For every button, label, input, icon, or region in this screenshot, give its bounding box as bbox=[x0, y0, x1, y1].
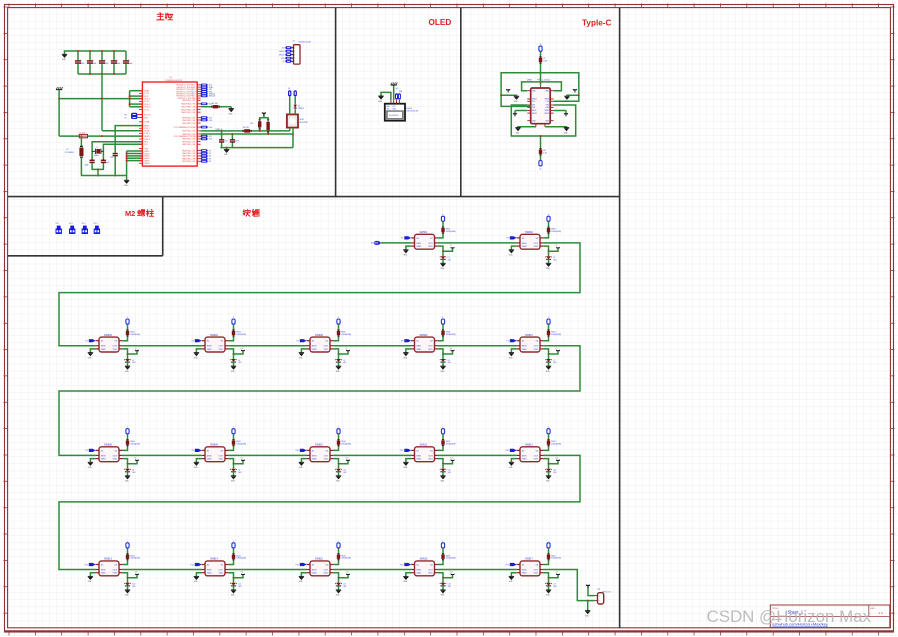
junction dot bbox=[338, 463, 340, 465]
junction dot bbox=[442, 250, 444, 252]
junction dot bbox=[442, 463, 444, 465]
key button K11 bbox=[451, 459, 454, 461]
svg-text:GND: GND bbox=[416, 459, 421, 461]
resistor R609 10K bbox=[233, 439, 235, 446]
svg-text:OUT: OUT bbox=[428, 569, 433, 571]
ground under LED bbox=[440, 262, 445, 264]
wire: bus link row2-row3 bbox=[59, 346, 580, 456]
wire: branch to key button bbox=[339, 461, 349, 464]
wire: bus link row1-row2 bbox=[59, 243, 580, 346]
wire+ground bottom-right pin bbox=[545, 126, 567, 129]
svg-text:P16: P16 bbox=[400, 564, 403, 566]
MCU U1 STM32F103C8T6 bbox=[142, 82, 197, 166]
svg-text:VSS_3: VSS_3 bbox=[144, 139, 150, 141]
wire: resistor to net port bbox=[233, 434, 235, 439]
input flag of SW1 bbox=[404, 236, 411, 239]
buzzer BUZ1 bbox=[287, 114, 298, 127]
svg-text:P17: P17 bbox=[506, 564, 509, 566]
svg-text:K14: K14 bbox=[241, 572, 244, 574]
wire: OSC_IN to MCU bbox=[92, 142, 142, 160]
wire: branch to key button bbox=[128, 351, 138, 354]
svg-text:P4: P4 bbox=[192, 341, 194, 343]
wire: resistor to net port bbox=[548, 434, 550, 439]
wire: branch to key button bbox=[339, 351, 349, 354]
Type-C top pin bbox=[540, 85, 542, 88]
wire: resistor to net port bbox=[127, 434, 129, 439]
wire: branch to LED bbox=[233, 464, 235, 469]
svg-text:VDD: VDD bbox=[324, 459, 329, 461]
wire: resistor to net port bbox=[548, 548, 550, 553]
switch SW5 body bbox=[310, 337, 330, 352]
wire: branch to LED bbox=[442, 354, 444, 359]
wire: LED to ground bbox=[338, 472, 340, 476]
ground under LED bbox=[440, 365, 445, 367]
svg-text:SW602: SW602 bbox=[525, 231, 534, 234]
ground under LED bbox=[336, 589, 341, 591]
svg-text:SWDIO: SWDIO bbox=[279, 51, 285, 53]
svg-text:SW610: SW610 bbox=[315, 444, 324, 447]
ground under LED bbox=[125, 475, 130, 477]
LED L14 bbox=[231, 583, 236, 586]
LED L4 bbox=[231, 359, 236, 362]
svg-text:K15: K15 bbox=[346, 572, 349, 574]
switch SW11 body bbox=[415, 447, 435, 462]
svg-text:SCL: SCL bbox=[396, 88, 399, 90]
switch SW3 body bbox=[99, 337, 119, 352]
key button K16 bbox=[451, 574, 454, 576]
net port flag (tall) left bbox=[288, 90, 291, 96]
svg-text:VDD: VDD bbox=[324, 349, 329, 351]
svg-text:M2-4: M2-4 bbox=[94, 223, 98, 225]
wire: SW7 bottom-left to ground bbox=[511, 349, 516, 353]
junction dot bbox=[442, 577, 444, 579]
resistor R608 10K bbox=[127, 439, 129, 446]
wire: branch to LED bbox=[442, 578, 444, 583]
wire: SW1 bottom-right branch bbox=[438, 246, 443, 251]
wire: SW16 bottom-right branch bbox=[438, 573, 443, 578]
wire: branch to key button bbox=[234, 351, 244, 354]
svg-text:SW611: SW611 bbox=[420, 444, 428, 447]
resistor R611 10K bbox=[442, 439, 444, 446]
svg-text:SW601: SW601 bbox=[420, 231, 429, 234]
svg-text:K9: K9 bbox=[241, 458, 243, 460]
svg-text:P1: P1 bbox=[401, 238, 403, 240]
svg-text:OUT: OUT bbox=[534, 346, 539, 348]
ground under LED bbox=[440, 475, 445, 477]
svg-text:PA7/TIM2_CH1: PA7/TIM2_CH1 bbox=[182, 160, 195, 163]
T symbol upper-right bbox=[573, 89, 577, 91]
ground left of SW4 bbox=[194, 352, 199, 354]
wire: SW8 bottom-right branch bbox=[122, 459, 127, 464]
wire: SW17 bottom-right branch bbox=[543, 573, 548, 578]
LED L13 bbox=[125, 583, 130, 586]
wire: resistor to net port bbox=[338, 434, 340, 439]
svg-text:1N5819: 1N5819 bbox=[298, 108, 304, 110]
svg-text:PB2: PB2 bbox=[144, 117, 148, 119]
wire: SW16 top-right to resistor bbox=[438, 560, 443, 564]
diode D1 bbox=[294, 110, 296, 115]
svg-text:P13: P13 bbox=[85, 564, 88, 566]
svg-text:1: 1 bbox=[233, 317, 234, 319]
input flag of SW12 bbox=[510, 449, 517, 452]
wire: SW1 bottom-left to ground bbox=[406, 246, 411, 250]
wire: LED to ground bbox=[233, 586, 235, 590]
wire: VDD tie bus bbox=[129, 91, 131, 107]
LED L7 bbox=[546, 359, 551, 362]
switch SW1 body bbox=[415, 234, 435, 249]
wire: SW2 top-right to resistor bbox=[543, 234, 548, 238]
wire: LED to ground bbox=[233, 362, 235, 366]
svg-text:P12: P12 bbox=[506, 450, 509, 452]
wire: branch to LED bbox=[338, 354, 340, 359]
ground left of SW10 bbox=[299, 461, 304, 463]
junction dots on cap rails bbox=[77, 50, 79, 52]
svg-text:CC1: CC1 bbox=[532, 101, 535, 103]
svg-text:2: 2 bbox=[599, 601, 600, 603]
switch SW10 body bbox=[310, 447, 330, 462]
wire: SW16 bottom-left to ground bbox=[406, 573, 411, 577]
svg-text:1: 1 bbox=[233, 427, 234, 429]
svg-text:SW608: SW608 bbox=[104, 444, 113, 447]
svg-text:100nF: 100nF bbox=[234, 141, 239, 143]
wire: SW11 bottom-left to ground bbox=[406, 459, 411, 463]
key button K14 bbox=[241, 574, 244, 576]
section divider: vertical line between OLED and Type-C bbox=[460, 8, 462, 197]
wire: bus row1 start bbox=[380, 242, 411, 244]
svg-text:GND: GND bbox=[522, 349, 527, 351]
resistor R4 1.5K pull-up bbox=[259, 120, 261, 130]
switch SW14 body bbox=[205, 561, 225, 576]
svg-text:20pF: 20pF bbox=[106, 162, 110, 164]
net port 5V (top) bbox=[539, 46, 542, 51]
resistor R7 on VBUS bbox=[540, 56, 542, 63]
svg-text:SCL: SCL bbox=[387, 108, 390, 110]
wire: branch to LED bbox=[548, 354, 550, 359]
net port above SW15 bbox=[337, 543, 340, 548]
capacitor C9 bbox=[231, 133, 233, 135]
svg-text:BUZ1: BUZ1 bbox=[300, 119, 305, 121]
svg-text:K6: K6 bbox=[450, 348, 452, 350]
wire: branch to key button bbox=[549, 575, 559, 578]
resistor R615 10K bbox=[338, 553, 340, 560]
svg-text:R1: R1 bbox=[209, 150, 211, 152]
svg-text:R5: R5 bbox=[209, 161, 211, 163]
svg-text:TP1: TP1 bbox=[597, 589, 600, 591]
svg-text:32.768KHZ: 32.768KHZ bbox=[65, 152, 75, 154]
wire: SW9 bottom-left to ground bbox=[196, 459, 201, 463]
net port above SW1 bbox=[441, 216, 444, 221]
svg-text:1: 1 bbox=[548, 541, 549, 543]
svg-text:Y1: Y1 bbox=[96, 147, 98, 149]
svg-text:10KΩ(1608): 10KΩ(1608) bbox=[551, 231, 561, 233]
svg-text:CC2: CC2 bbox=[546, 101, 549, 103]
svg-text:PA5/TIM2_CH1: PA5/TIM2_CH1 bbox=[182, 155, 195, 158]
switch SW6 body bbox=[415, 337, 435, 352]
svg-text:K17: K17 bbox=[556, 572, 559, 574]
wire: NRST row to MCU bbox=[88, 135, 143, 137]
wire: OLED GND pin bbox=[381, 92, 391, 100]
net port above SW10 bbox=[337, 429, 340, 434]
ground left of SW5 bbox=[299, 352, 304, 354]
wire: LED to ground bbox=[442, 472, 444, 476]
ground left of SW3 bbox=[88, 352, 93, 354]
svg-text:SW617: SW617 bbox=[525, 558, 534, 561]
wire: caps bottom rail bbox=[220, 147, 293, 149]
wire: LED to ground bbox=[442, 259, 444, 263]
svg-text:VBAT: VBAT bbox=[144, 90, 150, 93]
svg-text:K2: K2 bbox=[556, 245, 558, 247]
wire: LED to ground bbox=[338, 586, 340, 590]
key button K13 bbox=[135, 574, 138, 576]
svg-text:B1: B1 bbox=[125, 117, 127, 119]
ground under LED bbox=[546, 589, 551, 591]
crystal Y2 32.768KHz bbox=[80, 136, 82, 146]
net port above SW6 bbox=[441, 319, 444, 324]
svg-text:PB7/TIM2_CH1: PB7/TIM2_CH1 bbox=[182, 131, 195, 133]
wire: OSC_OUT to MCU bbox=[103, 144, 142, 159]
svg-text:SW616: SW616 bbox=[420, 558, 429, 561]
svg-text:M2-1: M2-1 bbox=[56, 223, 60, 225]
wire: SW6 bottom-right branch bbox=[438, 349, 443, 354]
OLED pins bbox=[390, 100, 392, 104]
svg-text:10KΩ(1608): 10KΩ(1608) bbox=[236, 334, 246, 336]
wire: SW15 bottom-right branch bbox=[333, 573, 338, 578]
ground left of SW14 bbox=[194, 575, 199, 577]
ground left of SW1 bbox=[403, 249, 408, 251]
ground left of SW17 bbox=[509, 575, 514, 577]
T symbol mid-left with stub bbox=[515, 110, 527, 112]
svg-text:SEN: SEN bbox=[416, 455, 421, 457]
LED L11 bbox=[441, 469, 446, 472]
start oval connector KEY chain bbox=[374, 241, 381, 245]
ground left of SW11 bbox=[403, 461, 408, 463]
svg-text:VDD: VDD bbox=[324, 573, 329, 575]
svg-text:MLT-8530: MLT-8530 bbox=[300, 122, 308, 124]
svg-text:OUT: OUT bbox=[219, 455, 224, 457]
svg-text:PA0/TIM2_CH1: PA0/TIM2_CH1 bbox=[182, 138, 195, 141]
wire: LED to ground bbox=[548, 586, 550, 590]
T symbol above pull-ups bbox=[262, 112, 266, 114]
capacitor C7 20pF bbox=[101, 159, 106, 161]
svg-text:SW604: SW604 bbox=[210, 334, 219, 337]
wire: NRST row horizontal bbox=[59, 135, 79, 137]
wire+ground upper-left bbox=[501, 95, 516, 96]
input flag of SW10 bbox=[300, 449, 307, 452]
svg-text:10KΩ(1608): 10KΩ(1608) bbox=[236, 558, 246, 560]
svg-text:SW614: SW614 bbox=[210, 558, 219, 561]
svg-text:OUT: OUT bbox=[428, 455, 433, 457]
svg-text:SEN: SEN bbox=[522, 455, 527, 457]
input flag of SW11 bbox=[404, 449, 411, 452]
wire: branch to key button bbox=[549, 249, 559, 252]
wire: TP1 pin1 up to T bbox=[588, 586, 595, 595]
junction dot bbox=[548, 463, 550, 465]
svg-text:K18: K18 bbox=[209, 139, 212, 141]
svg-text:GND5: GND5 bbox=[144, 160, 149, 162]
ground under MCU bbox=[126, 176, 128, 181]
wire: SW13 top-right to resistor bbox=[122, 560, 127, 564]
wire: branch to key button bbox=[443, 461, 453, 464]
ground under LED bbox=[125, 365, 130, 367]
svg-text:REV:: REV: bbox=[870, 608, 875, 610]
wire: resistor to net port bbox=[442, 434, 444, 439]
wire: SW7 bottom-right branch bbox=[543, 349, 548, 354]
svg-text:1: 1 bbox=[338, 427, 339, 429]
resistor R612 10K bbox=[548, 439, 550, 446]
resistor R603 10K bbox=[127, 330, 129, 337]
wire: OLED VCC pin bbox=[393, 85, 395, 100]
svg-text:1: 1 bbox=[233, 541, 234, 543]
resistor R607 10K bbox=[548, 330, 550, 337]
wire: branch to key button bbox=[128, 461, 138, 464]
ground right of R3 bbox=[229, 108, 234, 110]
svg-text:VDD: VDD bbox=[534, 459, 539, 461]
svg-text:NRST: NRST bbox=[144, 125, 150, 127]
capacitor C5 100nF bbox=[113, 153, 118, 155]
wire: SW12 top-right to resistor bbox=[543, 446, 548, 450]
wire: branch to key button bbox=[128, 575, 138, 578]
svg-text:10KΩ(1608): 10KΩ(1608) bbox=[446, 334, 456, 336]
input flag of SW7 bbox=[510, 339, 517, 342]
key button K1 bbox=[451, 247, 454, 249]
ground under LED bbox=[231, 475, 236, 477]
capacitor C5 100nF bbox=[125, 51, 127, 60]
svg-text:PA9/TIM2_CH1: PA9/TIM2_CH1 bbox=[182, 99, 195, 102]
svg-text:GND: GND bbox=[312, 459, 317, 461]
svg-text:GND: GND bbox=[101, 349, 106, 351]
wire: SW10 top-right to resistor bbox=[333, 446, 338, 450]
ground left of SW13 bbox=[88, 575, 93, 577]
ground under LED bbox=[336, 475, 341, 477]
wire: power bar stem bbox=[58, 90, 60, 99]
svg-text:1: 1 bbox=[338, 317, 339, 319]
resistor R8 5.1K bottom bbox=[540, 148, 542, 155]
svg-text:VSS_2: VSS_2 bbox=[144, 133, 150, 135]
capacitor C4 100nF bbox=[113, 51, 115, 60]
svg-text:P6: P6 bbox=[401, 341, 403, 343]
switch SW12 body bbox=[520, 447, 540, 462]
svg-text:K16: K16 bbox=[209, 120, 212, 122]
svg-text:10KΩ(1608): 10KΩ(1608) bbox=[446, 558, 456, 560]
LED L1 bbox=[441, 256, 446, 259]
wire: buzzer bottom-left to D- line bbox=[289, 128, 291, 131]
wire: USB D- line bbox=[201, 130, 243, 132]
input flag of SW13 bbox=[89, 563, 96, 566]
svg-text:PA11/TIM2_CH1: PA11/TIM2_CH1 bbox=[181, 106, 195, 109]
svg-text:K16: K16 bbox=[450, 572, 453, 574]
net port above SW7 bbox=[547, 319, 550, 324]
svg-text:B0: B0 bbox=[125, 114, 127, 116]
svg-text:P8: P8 bbox=[86, 450, 88, 452]
svg-text:SWCLK: SWCLK bbox=[209, 96, 216, 98]
section divider: horizontal line below top sections bbox=[8, 196, 620, 198]
wire: bus row3 inter-unit bbox=[122, 454, 201, 456]
svg-text:100nF: 100nF bbox=[128, 63, 133, 65]
svg-text:PA1/TIM2_CH1: PA1/TIM2_CH1 bbox=[182, 140, 195, 143]
key button K6 bbox=[451, 350, 454, 352]
junction dot bbox=[548, 577, 550, 579]
ground left of SW15 bbox=[299, 575, 304, 577]
svg-text:OUT: OUT bbox=[428, 346, 433, 348]
LED L12 bbox=[546, 469, 551, 472]
svg-text:VDD: VDD bbox=[219, 573, 224, 575]
wire: branch to LED bbox=[233, 354, 235, 359]
Type-C bottom pins bbox=[535, 124, 537, 127]
svg-text:1.0: 1.0 bbox=[879, 611, 884, 615]
wire: resistor to net port bbox=[233, 324, 235, 329]
svg-text:PC13-TAMPER-RTC/PB9: PC13-TAMPER-RTC/PB9 bbox=[174, 135, 196, 138]
wire: SW10 bottom-left to ground bbox=[301, 459, 306, 463]
svg-text:M2: M2 bbox=[125, 209, 135, 218]
wire: resistor to net port bbox=[127, 548, 129, 553]
wire: resistor to port bbox=[540, 155, 542, 160]
wire: LED to ground bbox=[127, 472, 129, 476]
svg-text:10KΩ(1608): 10KΩ(1608) bbox=[551, 444, 561, 446]
ground left of SW2 bbox=[509, 249, 514, 251]
svg-text:GND: GND bbox=[207, 349, 212, 351]
svg-text:P10: P10 bbox=[296, 450, 299, 452]
LED L15 bbox=[336, 583, 341, 586]
wire+junction: TP1 to ground bbox=[587, 600, 589, 602]
svg-text:SEN: SEN bbox=[101, 455, 106, 457]
svg-text:10KΩ(1608): 10KΩ(1608) bbox=[130, 558, 140, 560]
wire: resistor to net port bbox=[338, 324, 340, 329]
svg-text:10KΩ(1608): 10KΩ(1608) bbox=[551, 558, 561, 560]
net port above SW11 bbox=[441, 429, 444, 434]
svg-text:1: 1 bbox=[442, 427, 443, 429]
svg-text:OUT: OUT bbox=[428, 243, 433, 245]
svg-text:SEN: SEN bbox=[522, 346, 527, 348]
OLED SDA net flag bbox=[398, 93, 401, 99]
svg-text:R4: R4 bbox=[209, 158, 211, 160]
svg-text:SEN: SEN bbox=[416, 346, 421, 348]
wire: SW17 top-right to resistor bbox=[543, 560, 548, 564]
svg-text:100nF: 100nF bbox=[80, 63, 85, 65]
ground under TP1 bbox=[585, 610, 590, 612]
wire: SW6 top-right to resistor bbox=[438, 336, 443, 340]
wire: resistor to net port bbox=[442, 548, 444, 553]
svg-text:GND: GND bbox=[207, 573, 212, 575]
svg-text:BOOT0: BOOT0 bbox=[144, 114, 150, 116]
ground left of SW7 bbox=[509, 352, 514, 354]
svg-text:K10: K10 bbox=[346, 458, 349, 460]
key button K4 bbox=[241, 350, 244, 352]
wire: resistor to net port bbox=[442, 324, 444, 329]
wire: SW14 top-right to resistor bbox=[228, 560, 233, 564]
net port above SW5 bbox=[337, 319, 340, 324]
ground under LED bbox=[546, 262, 551, 264]
svg-text:GND: GND bbox=[522, 573, 527, 575]
wire: SW14 bottom-left to ground bbox=[196, 573, 201, 577]
svg-text:10KΩ(1608): 10KΩ(1608) bbox=[446, 231, 456, 233]
svg-text:3V3: 3V3 bbox=[282, 47, 285, 49]
switch SW15 body bbox=[310, 561, 330, 576]
svg-text:OUT: OUT bbox=[534, 569, 539, 571]
svg-text:VDD: VDD bbox=[428, 573, 433, 575]
svg-text:GND: GND bbox=[522, 246, 527, 248]
svg-text:PZ254V-11-4P: PZ254V-11-4P bbox=[299, 41, 312, 43]
svg-text:OUT: OUT bbox=[219, 346, 224, 348]
wire: bus row4 inter-unit bbox=[122, 569, 201, 571]
key button K12 bbox=[556, 459, 559, 461]
svg-text:VDDA: VDDA bbox=[144, 130, 150, 133]
wire: USB D+ line bbox=[201, 133, 293, 135]
LED L10 bbox=[336, 469, 341, 472]
net port flag (tall) right bbox=[294, 90, 297, 96]
wire: resistor to net port bbox=[127, 324, 129, 329]
LED L8 bbox=[125, 469, 130, 472]
LED L9 bbox=[231, 469, 236, 472]
